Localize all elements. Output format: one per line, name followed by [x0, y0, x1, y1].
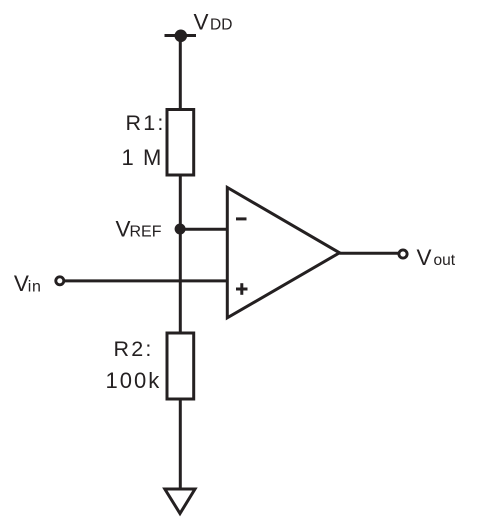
terminal Vin open circle: [56, 277, 64, 285]
svg-text:DD: DD: [210, 16, 232, 33]
svg-text:R2:: R2:: [114, 337, 154, 361]
resistor R1: [167, 110, 194, 176]
op-amp U1 triangle: [227, 188, 339, 318]
svg-text:V: V: [116, 217, 131, 242]
svg-text:V: V: [14, 271, 29, 296]
wire R2 to ground: [179, 399, 182, 489]
svg-text:out: out: [434, 252, 456, 269]
ground: [165, 489, 195, 514]
svg-text:in: in: [28, 278, 42, 295]
wire Vin to op-amp non-inverting input: [64, 279, 228, 282]
wire node VREF to op-amp inverting input: [180, 228, 227, 231]
svg-text:REF: REF: [130, 224, 162, 241]
wire op-amp output to Vout terminal: [340, 252, 399, 255]
svg-text:V: V: [417, 245, 432, 270]
svg-text:100k: 100k: [106, 368, 162, 393]
node VDD junction dot: [175, 30, 188, 43]
op-amp inverting input minus sign: [236, 217, 247, 220]
wire node VREF down to R2 (crosses Vin wire, no junction): [179, 229, 182, 334]
VDD supply bar: [165, 34, 197, 37]
resistor R2: [167, 333, 194, 399]
terminal Vout open circle: [399, 250, 407, 258]
wire VDD to R1: [179, 36, 182, 111]
svg-text:V: V: [194, 9, 209, 34]
wire R1 to node VREF: [179, 175, 182, 229]
node VREF junction dot: [175, 224, 186, 235]
svg-text:R1:: R1:: [126, 111, 166, 135]
op-amp non-inverting input plus sign: [236, 288, 248, 291]
svg-text:1 M: 1 M: [122, 145, 163, 170]
